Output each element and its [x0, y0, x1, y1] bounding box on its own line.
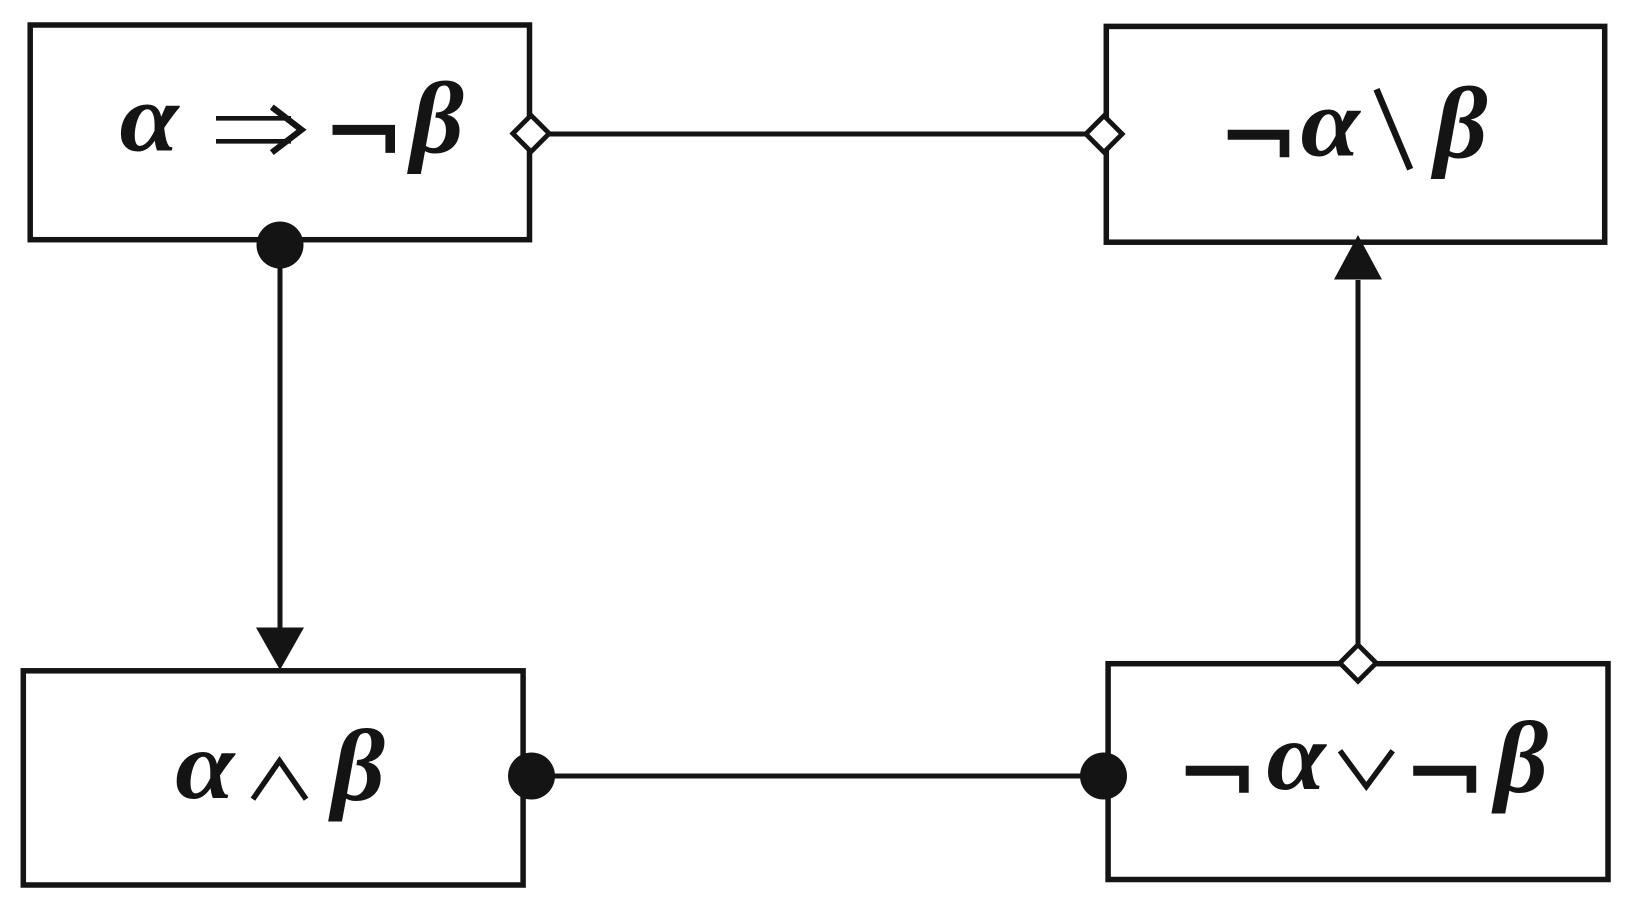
- box not-alpha-setminus-beta (top-right): [1106, 26, 1604, 242]
- label alpha (top-left box): [120, 65, 181, 172]
- label beta (bottom-right box): [1491, 702, 1549, 814]
- label beta (top-left box): [406, 63, 464, 175]
- svg-text:α: α: [175, 712, 236, 819]
- circle connector at bottom-right box left edge: [1080, 753, 1127, 800]
- box not-alpha-or-not-beta (bottom-right): [1108, 664, 1608, 880]
- svg-text:α: α: [1301, 70, 1362, 177]
- symbol long-double-arrow (top-left box): [216, 107, 302, 153]
- label alpha (top-right box): [1301, 70, 1362, 177]
- symbol not-sign first (bottom-right box): [1186, 766, 1249, 793]
- box alpha-and-beta (bottom-left): [23, 671, 523, 885]
- svg-text:β: β: [406, 63, 464, 175]
- svg-text:β: β: [1430, 68, 1488, 180]
- wire left vertical connector: [278, 245, 283, 632]
- wire top horizontal connector: [549, 132, 1086, 137]
- diamond connector at bottom-right box top edge: [1340, 645, 1376, 681]
- label alpha (bottom-left box): [175, 712, 236, 819]
- circle connector at bottom-left box right edge: [508, 753, 555, 800]
- label alpha (bottom-right box): [1267, 703, 1328, 810]
- label beta (top-right box): [1430, 68, 1488, 180]
- svg-text:β: β: [327, 710, 385, 822]
- symbol vee (bottom-right box): [1340, 751, 1393, 787]
- symbol setminus backslash (top-right box): [1377, 89, 1411, 169]
- symbol wedge (bottom-left box): [253, 761, 306, 799]
- circle connector at top-left box bottom edge: [257, 222, 304, 269]
- wire bottom horizontal connector: [531, 774, 1104, 779]
- symbol not-sign (top-right box): [1228, 130, 1290, 158]
- symbol not-sign (top-left box): [333, 125, 396, 153]
- arrowhead up into top-right box: [1334, 235, 1382, 280]
- arrowhead down into bottom-left box: [256, 628, 304, 671]
- svg-text:α: α: [1267, 703, 1328, 810]
- svg-text:β: β: [1491, 702, 1549, 814]
- diamond connector at top-left box right edge: [513, 115, 549, 151]
- label beta (bottom-left box): [327, 710, 385, 822]
- diamond connector at top-right box left edge: [1086, 116, 1122, 152]
- symbol not-sign second (bottom-right box): [1413, 766, 1476, 793]
- svg-text:α: α: [120, 65, 181, 172]
- wire right vertical connector: [1356, 280, 1361, 645]
- box alpha-implies-not-beta (top-left): [30, 25, 529, 240]
